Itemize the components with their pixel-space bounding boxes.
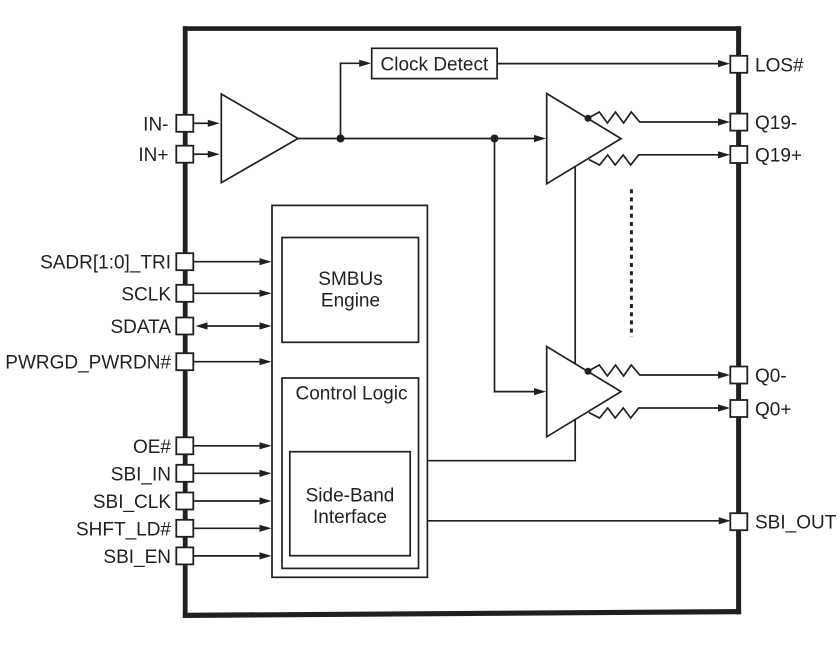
svg-text:Control Logic: Control Logic: [296, 384, 408, 405]
svg-text:SCLK: SCLK: [121, 284, 171, 305]
svg-text:Engine: Engine: [321, 291, 380, 312]
svg-text:Q19-: Q19-: [755, 113, 797, 134]
svg-text:Q0+: Q0+: [755, 400, 791, 421]
svg-text:SBI_IN: SBI_IN: [111, 464, 171, 485]
svg-text:SBI_OUT: SBI_OUT: [755, 513, 837, 534]
svg-text:Q0-: Q0-: [755, 366, 787, 387]
svg-text:SADR[1:0]_TRI: SADR[1:0]_TRI: [40, 253, 171, 274]
svg-text:OE#: OE#: [133, 437, 171, 458]
svg-text:SMBUs: SMBUs: [318, 269, 382, 290]
svg-text:PWRGD_PWRDN#: PWRGD_PWRDN#: [5, 353, 171, 374]
svg-text:SHFT_LD#: SHFT_LD#: [76, 519, 171, 540]
svg-text:SDATA: SDATA: [110, 317, 171, 338]
svg-text:Clock Detect: Clock Detect: [381, 54, 489, 75]
svg-text:IN-: IN-: [143, 114, 168, 135]
svg-text:IN+: IN+: [138, 145, 168, 166]
svg-text:Side-Band: Side-Band: [306, 486, 395, 507]
svg-text:Interface: Interface: [313, 507, 387, 528]
svg-text:Q19+: Q19+: [755, 146, 802, 167]
svg-text:SBI_CLK: SBI_CLK: [93, 492, 171, 513]
svg-text:SBI_EN: SBI_EN: [103, 547, 171, 568]
svg-text:LOS#: LOS#: [755, 55, 804, 76]
